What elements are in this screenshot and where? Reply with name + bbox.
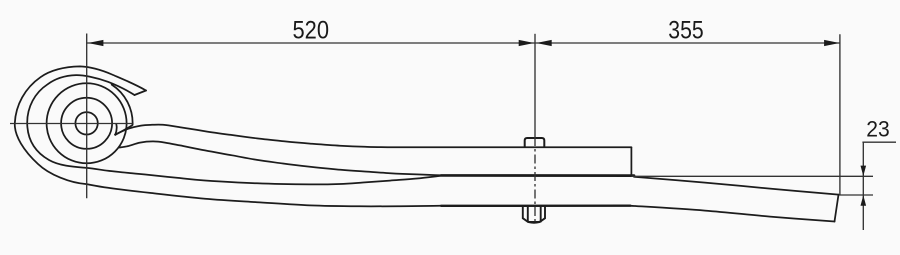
eye bore circle [75,112,97,134]
wrapper leaf inner surface + second leaf top [27,75,440,184]
nut bottom chamfer arc [529,221,540,224]
nut facet line left [527,206,529,221]
roll end sliver edge [115,125,132,135]
center bolt head [525,138,545,147]
center bolt nut [523,206,545,222]
main leaf taper top edge [634,177,839,195]
wrapper contact arc on roll [112,85,133,125]
arrow left of 355 [536,40,552,46]
23 arrow stem [862,142,864,230]
eye vertical center line / 520 extension line [86,34,88,199]
svg-text:23: 23 [866,116,890,141]
right extension line [839,34,841,195]
nut facet line right [540,206,542,221]
arrow right of 355 [824,40,840,46]
dimension line 520/355 [87,42,840,44]
second leaf bottom end (thick) [441,204,630,207]
main leaf bottom surface [120,141,441,175]
23 dim upper reference line [632,175,874,177]
eye horizontal center line [10,123,133,125]
main leaf end edge [835,195,839,222]
arrow left of 520 [88,40,104,46]
main leaf roll outer circle [47,83,127,163]
svg-text:520: 520 [293,17,330,45]
wrapper leaf outer surface + second leaf bottom [15,66,440,206]
wrapper tip end cut [135,91,147,96]
23 leader shoulder [862,141,896,143]
middle extension line [534,34,536,137]
23 up arrow head [861,195,867,206]
main leaf top surface [115,125,631,148]
roll end butt edge [115,124,116,135]
eye inner circle [61,98,112,149]
bolt center line (dash-dot) [534,137,536,222]
arrow right of 520 [519,40,535,46]
second leaf square end edge [630,147,632,175]
main leaf taper bottom edge [630,206,834,222]
leaves contact line (thick) [441,174,634,177]
svg-text:355: 355 [668,17,703,45]
23 down arrow head [861,166,867,177]
23 dim lower reference line [839,194,873,196]
